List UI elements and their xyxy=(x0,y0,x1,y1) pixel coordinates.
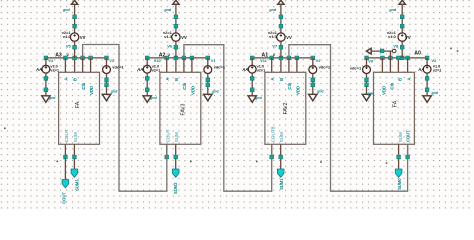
svg-text:AA: AA xyxy=(136,67,143,72)
power source V5 stem xyxy=(70,0,78,58)
svg-text:V8: V8 xyxy=(393,43,399,48)
svg-text:VDD: VDD xyxy=(190,86,195,95)
wire carry loop: FA2 COUT to FA3 CIb xyxy=(184,45,272,192)
svg-text:V6: V6 xyxy=(167,43,173,48)
svg-text:vdc=1: vdc=1 xyxy=(112,64,124,69)
svg-text:COUT: COUT xyxy=(62,192,67,204)
full adder block FA (bit 0, mirrored) wires xyxy=(362,56,431,177)
svg-text:B: B xyxy=(398,78,403,81)
svg-text:A: A xyxy=(64,78,69,81)
svg-text:SUM2: SUM2 xyxy=(173,182,178,194)
junction at V8 stem bus xyxy=(400,56,404,60)
svg-text:v2=1: v2=1 xyxy=(152,69,161,73)
svg-text:vdc=1: vdc=1 xyxy=(319,64,331,69)
svg-text:v2=1: v2=1 xyxy=(50,69,59,73)
svg-text:COUTB: COUTB xyxy=(270,126,275,142)
svg-text:V3: V3 xyxy=(109,58,115,63)
svg-text:VDD: VDD xyxy=(295,86,300,95)
svg-text:VDD: VDD xyxy=(89,86,94,95)
svg-text:A: A xyxy=(165,78,170,81)
svg-text:VV: VV xyxy=(80,35,86,40)
svg-text:SUM: SUM xyxy=(398,132,403,142)
svg-text:v1.0: v1.0 xyxy=(388,34,397,39)
svg-text:V2: V2 xyxy=(316,58,322,63)
svg-text:SUM: SUM xyxy=(73,132,78,142)
svg-text:V5: V5 xyxy=(66,43,72,48)
svg-text:V9: V9 xyxy=(368,58,374,63)
wire COUT output of MSB xyxy=(64,158,66,180)
full adder block FA2 (bit 1) wires xyxy=(248,56,317,177)
speck dots xyxy=(57,161,59,163)
svg-text:V10: V10 xyxy=(154,58,161,63)
svg-text:v1.0: v1.0 xyxy=(63,34,72,39)
svg-text:COUT: COUT xyxy=(64,129,69,142)
wire carry loop: FA(bit0) COUT to FA2 CIb xyxy=(289,45,408,192)
svg-text:VV: VV xyxy=(181,35,187,40)
port COUT output arrow xyxy=(62,180,69,188)
svg-text:gnd: gnd xyxy=(388,8,397,12)
wire carry-in to bus xyxy=(371,50,392,52)
svg-text:SUM1: SUM1 xyxy=(279,178,284,190)
svg-text:gnd: gnd xyxy=(62,8,71,12)
svg-text:V11: V11 xyxy=(260,58,268,63)
svg-text:CIb: CIb xyxy=(182,82,187,89)
svg-text:SUM: SUM xyxy=(279,132,284,142)
svg-text:gnd: gnd xyxy=(211,90,219,94)
svg-text:v1.0: v1.0 xyxy=(269,34,278,39)
svg-text:FA: FA xyxy=(75,101,81,108)
svg-text:v1.0: v1.0 xyxy=(164,34,173,39)
svg-text:A3: A3 xyxy=(55,53,62,59)
power source V7 stem xyxy=(277,0,285,58)
svg-text:COUT: COUT xyxy=(165,129,170,142)
svg-text:B: B xyxy=(174,78,179,81)
svg-text:AA: AA xyxy=(241,67,248,72)
power source V6 stem xyxy=(172,0,180,58)
svg-text:v2=1: v2=1 xyxy=(433,69,442,73)
svg-text:B: B xyxy=(73,78,78,81)
svg-text:V2: V2 xyxy=(431,58,437,63)
svg-text:FAV2: FAV2 xyxy=(283,102,289,114)
svg-text:AA: AA xyxy=(417,67,424,72)
svg-text:SUM0: SUM0 xyxy=(397,178,402,190)
svg-text:VV: VV xyxy=(405,35,411,40)
svg-text:vdc=1: vdc=1 xyxy=(350,65,362,70)
svg-text:gnd: gnd xyxy=(431,91,439,95)
svg-text:gnd: gnd xyxy=(48,96,56,100)
svg-text:SUM3: SUM3 xyxy=(75,179,80,191)
svg-text:CIb: CIb xyxy=(390,82,395,89)
port carry-in arrow at FA bit0 xyxy=(366,48,371,54)
svg-text:VV: VV xyxy=(286,35,292,40)
svg-text:CIb: CIb xyxy=(287,82,292,89)
svg-text:B: B xyxy=(279,78,284,81)
power source V8 stem xyxy=(398,0,406,58)
svg-text:gnd: gnd xyxy=(254,96,262,100)
svg-text:COUT: COUT xyxy=(406,130,411,142)
svg-text:V4: V4 xyxy=(48,58,54,63)
wire carry loop: FA3 COUT to FA CIb xyxy=(83,45,167,192)
connector circle glyph xyxy=(392,49,396,53)
svg-text:vdc=1: vdc=1 xyxy=(214,64,226,69)
svg-text:V1: V1 xyxy=(211,58,217,63)
svg-text:A: A xyxy=(407,78,412,81)
svg-text:CIb: CIb xyxy=(81,82,86,89)
svg-text:gnd: gnd xyxy=(163,8,172,12)
svg-text:gnd: gnd xyxy=(110,90,118,94)
full adder block FA (bit 3) wires xyxy=(42,56,111,177)
svg-text:FAV3: FAV3 xyxy=(181,103,187,115)
svg-text:A0: A0 xyxy=(414,50,421,56)
svg-text:gnd: gnd xyxy=(367,92,375,96)
full adder block FA3 (bit 2) wires xyxy=(143,56,212,177)
svg-text:v2=1: v2=1 xyxy=(257,69,266,73)
svg-text:A: A xyxy=(270,78,275,81)
svg-text:FA: FA xyxy=(393,100,399,107)
svg-text:AA: AA xyxy=(35,67,42,72)
svg-text:gnd: gnd xyxy=(149,96,157,100)
svg-text:SUM: SUM xyxy=(174,132,179,142)
svg-text:gnd: gnd xyxy=(316,90,324,94)
svg-text:V7: V7 xyxy=(272,43,278,48)
svg-text:gnd: gnd xyxy=(268,8,277,12)
svg-text:VDD: VDD xyxy=(382,86,387,95)
